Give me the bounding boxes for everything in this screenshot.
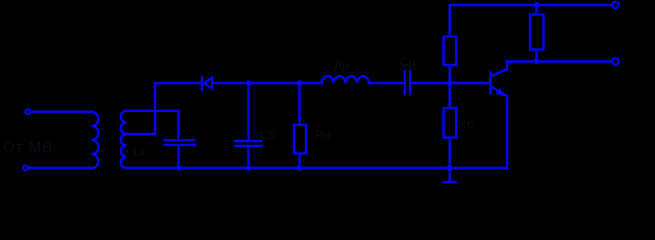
- svg-text:Rб: Rб: [458, 117, 474, 131]
- svg-text:Сp: Сp: [400, 55, 416, 69]
- svg-text:Др: Др: [334, 58, 349, 72]
- svg-text:Rн: Rн: [315, 128, 330, 142]
- svg-text:От МВ: От МВ: [3, 139, 53, 156]
- svg-text:Сб: Сб: [260, 128, 276, 142]
- svg-text:Lк: Lк: [134, 147, 145, 159]
